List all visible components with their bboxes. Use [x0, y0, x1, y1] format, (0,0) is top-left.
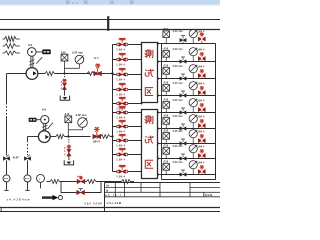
shaft hatch lower [42, 125, 47, 127]
svg-text:A16: A16 [163, 98, 168, 102]
wire lower main line [65, 136, 91, 138]
measuring cup upper [60, 96, 69, 101]
svg-text:1.B4 4: 1.B4 4 [116, 77, 125, 81]
wire pump P2 suction [28, 136, 39, 138]
svg-text:1/84 4: 1/84 4 [93, 140, 101, 144]
char 试 upper [145, 70, 147, 77]
pressure switch square upper [61, 54, 68, 61]
return line top [61, 181, 77, 183]
manifold valve 8 [113, 140, 142, 142]
svg-text:0.3F mm: 0.3F mm [173, 82, 184, 85]
svg-text:0.3F mm: 0.3F mm [173, 161, 184, 164]
manifold valve 10 [113, 171, 142, 173]
bypass valve bottom handle [80, 189, 82, 191]
junction rail upper feed [111, 72, 113, 74]
motor circle M1 [28, 48, 37, 57]
svg-text:A16: A16 [163, 64, 168, 68]
wire valve V1 to rail [101, 73, 112, 75]
manifold valve 7 [113, 126, 142, 128]
svg-text:0.3F mm: 0.3F mm [173, 115, 184, 118]
bypass loop frame [61, 182, 101, 193]
svg-text:1.B4 4: 1.B4 4 [116, 92, 125, 96]
svg-text:1.B4 4: 1.B4 4 [116, 143, 125, 147]
shaft hatch upper [29, 60, 34, 62]
hose zigzag upper 2 [87, 72, 94, 76]
variable arrow slash upper [36, 57, 42, 63]
junction upper instruments [63, 72, 65, 74]
motor nameplate box lower [29, 118, 37, 122]
svg-text:A16: A16 [163, 47, 168, 51]
svg-text:0.3F mm: 0.3F mm [173, 99, 184, 102]
svg-text:1.B4 4: 1.B4 4 [116, 174, 125, 178]
wire box to motor lower [37, 119, 41, 121]
svg-text:1/84 4: 1/84 4 [197, 99, 205, 102]
manifold valve 3 [113, 74, 142, 76]
suction valve 2 [24, 157, 30, 160]
module row 8 [158, 158, 162, 160]
module row 9 [158, 174, 162, 176]
svg-text:A16: A16 [163, 129, 168, 133]
band fold tick [107, 16, 109, 31]
return line to loop [60, 181, 62, 183]
svg-text:z4.4JE4ew: z4.4JE4ew [7, 197, 31, 201]
module row 5 [158, 112, 162, 114]
sheet bottom line 2 [0, 211, 220, 213]
pressure gauge lower [78, 118, 88, 128]
sheet top band line 2 [0, 29, 220, 31]
bottom-left frame joint [0, 208, 2, 212]
suction pipe 2 end [27, 182, 29, 191]
junction rail lower feed [111, 135, 113, 137]
drain valve red lower actuator [67, 146, 71, 148]
module row 7 [158, 143, 162, 145]
shaft lower [43, 124, 45, 132]
svg-text:1/84 4: 1/84 4 [197, 161, 205, 164]
svg-text:1/84 4: 1/84 4 [197, 82, 205, 85]
pump P2 circle [38, 131, 50, 143]
relief valve V2 actuator [94, 128, 100, 130]
branch down upper [64, 74, 66, 79]
hose/filter legend symbol 3 [3, 52, 5, 54]
motor nameplate box [42, 49, 51, 54]
svg-text:P10: P10 [163, 27, 168, 31]
suction pipe 2 lower [27, 160, 29, 175]
svg-text:a4 la.l: a4 la.l [105, 194, 122, 197]
sheet bottom line 1 [0, 207, 220, 209]
svg-text:A16: A16 [163, 160, 168, 164]
manifold valve 9 [113, 154, 142, 156]
test area box lower [142, 110, 158, 179]
wire to cup lower [68, 156, 70, 160]
title block grid [105, 182, 221, 184]
bypass valve top body [77, 180, 84, 184]
thermometer stem [40, 182, 42, 188]
char 测 upper [145, 50, 147, 57]
wire motor to box [36, 51, 42, 53]
strainer 2 [24, 175, 31, 182]
module bottom edge [162, 179, 216, 181]
variable arrow slash lower [48, 123, 53, 129]
svg-text:1/84 4: 1/84 4 [197, 115, 205, 118]
relief valve V2 body [93, 135, 100, 139]
browser top bar [0, 0, 220, 5]
svg-text:1/84 4: 1/84 4 [197, 48, 205, 51]
hose zigzag lower 2 [100, 135, 110, 139]
svg-text:9:4: 9:4 [42, 108, 46, 112]
svg-text:1.B4 4: 1.B4 4 [116, 129, 125, 133]
tank arrow [42, 196, 53, 199]
svg-text:1.B4 4: 1.B4 4 [116, 157, 125, 161]
return line left [47, 181, 51, 183]
module row 1 [158, 43, 162, 45]
test area box upper [142, 43, 158, 103]
svg-text:1/84 4: 1/84 4 [197, 130, 205, 133]
bypass valve bottom body [77, 191, 84, 195]
suction valve 1 [3, 157, 9, 160]
char 测 lower [145, 116, 147, 123]
wire pump P2 discharge [50, 136, 56, 138]
return zigzag left [50, 180, 60, 184]
svg-text:0.3F mm: 0.3F mm [173, 130, 184, 133]
suction pipe 1 end [6, 182, 8, 191]
svg-text:0.3F mm: 0.3F mm [76, 113, 88, 117]
strainer 1 [3, 175, 10, 182]
branch down lower [68, 137, 70, 145]
svg-text:1.B4 4: 1.B4 4 [116, 47, 125, 51]
hose/filter legend symbol 2 [3, 45, 5, 47]
suction pipe 2 vertical [27, 137, 29, 141]
svg-text:6f: 6f [106, 189, 108, 192]
return line to rail [96, 181, 113, 183]
relief valve V1 body [94, 72, 101, 76]
drain valve red lower body [67, 150, 71, 156]
drain valve red upper actuator [62, 80, 66, 82]
svg-text:0.3F mm: 0.3F mm [173, 48, 184, 51]
svg-text:t.It: t.It [106, 184, 109, 187]
svg-text:R:4: R:4 [94, 56, 99, 60]
svg-text:0.3F mm: 0.3F mm [173, 65, 184, 68]
pressure gauge upper [75, 55, 84, 64]
char 区 upper [145, 88, 153, 96]
pressure switch square lower [65, 116, 72, 123]
return zigzag right [87, 180, 97, 184]
pump P1 circle [26, 68, 38, 80]
svg-text:x(t).4JB: x(t).4JB [107, 201, 122, 205]
char 区 lower [145, 160, 153, 168]
distribution rail [112, 45, 114, 172]
char 试 lower [145, 136, 147, 143]
drain valve red upper body [63, 83, 67, 89]
measuring cup lower [64, 160, 73, 165]
svg-text:4L4F: 4L4F [13, 155, 19, 159]
svg-text:1.B4 4: 1.B4 4 [116, 62, 125, 66]
svg-text:0.3F mm: 0.3F mm [173, 145, 184, 148]
module row 2 [158, 61, 162, 63]
hose zigzag upper 1 [45, 71, 55, 75]
bypass valve top actuator [79, 177, 83, 179]
junction lower instruments [67, 135, 69, 137]
manifold valve 2 [113, 59, 142, 61]
manifold valve 6 [113, 112, 142, 114]
module left bus [161, 44, 163, 180]
hose zigzag lower 1 [56, 134, 65, 138]
return zigzag far right [113, 181, 122, 183]
manifold valve 5 [113, 103, 142, 105]
svg-text:0.3F mm: 0.3F mm [72, 50, 84, 54]
svg-text:9:4: 9:4 [28, 43, 32, 47]
svg-text:£90 3A9F: £90 3A9F [85, 202, 103, 206]
svg-text:1.B4 4: 1.B4 4 [116, 115, 125, 119]
manifold valve 4 [113, 89, 142, 91]
module row 6 [158, 128, 162, 130]
hose/filter legend symbol 1 [3, 38, 5, 40]
svg-text:A16: A16 [163, 114, 168, 118]
svg-text:1/84 4: 1/84 4 [197, 65, 205, 68]
motor circle M2 [41, 116, 49, 124]
svg-text:0.3F mm: 0.3F mm [173, 30, 184, 33]
module row 4 [158, 95, 162, 97]
sheet top band line 1 [0, 19, 220, 21]
instrument stub upper [64, 68, 66, 73]
module right bus [215, 44, 217, 180]
suction pipe 1 lower [6, 160, 8, 175]
thermometer circle [37, 174, 45, 182]
wire upper main line [55, 73, 91, 75]
suction pipe left vertical [6, 74, 8, 103]
shaft upper [30, 56, 32, 68]
wire to rail lower [110, 136, 113, 138]
wire pump P1 discharge [38, 73, 45, 75]
wire pump P1 suction [7, 73, 27, 75]
svg-text:1/84 4: 1/84 4 [197, 145, 205, 148]
svg-text:Q=2.5L: Q=2.5L [205, 194, 214, 197]
instrument stub lower [67, 130, 69, 137]
wire to cup upper [64, 90, 66, 96]
relief valve V1 actuator [95, 65, 101, 67]
svg-text:A16: A16 [163, 144, 168, 148]
svg-text:A16: A16 [163, 81, 168, 85]
manifold valve 1 [113, 44, 142, 46]
module row 3 [158, 78, 162, 80]
